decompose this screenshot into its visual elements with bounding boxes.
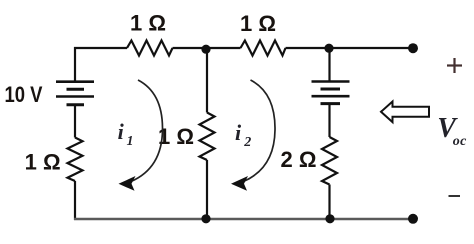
mesh current i1 arc bbox=[131, 80, 163, 182]
node D dot bottom-right branch bbox=[325, 214, 334, 223]
voltage source V1 10V battery plates bbox=[56, 82, 94, 105]
svg-text:2: 2 bbox=[243, 135, 251, 150]
svg-text:1 Ω: 1 Ω bbox=[240, 11, 276, 36]
voltage source V2 battery plates bbox=[312, 82, 350, 104]
wire top-left horizontal bbox=[74, 47, 127, 49]
plus sign bbox=[447, 58, 462, 73]
wire bottom horizontal bbox=[74, 218, 413, 221]
svg-text:1 Ω: 1 Ω bbox=[158, 124, 194, 149]
wire middle vertical upper bbox=[206, 48, 208, 113]
wire left vertical mid bbox=[74, 105, 76, 138]
Voc open arrow bbox=[381, 102, 429, 123]
resistor R-right 2ohm vertical bbox=[322, 137, 337, 185]
mesh current i1 arrowhead bbox=[119, 176, 136, 191]
svg-text:i: i bbox=[235, 120, 242, 145]
wire top-right horizontal bbox=[286, 47, 414, 49]
wire left vertical upper bbox=[74, 47, 76, 81]
svg-text:i: i bbox=[118, 119, 125, 144]
wire left vertical lower bbox=[74, 181, 76, 220]
terminal dot bottom-right bbox=[408, 214, 418, 224]
svg-text:1 Ω: 1 Ω bbox=[25, 150, 61, 175]
node B dot top-right branch bbox=[324, 44, 333, 53]
terminal dot top-right bbox=[408, 43, 418, 53]
wire middle vertical lower bbox=[206, 160, 208, 220]
svg-text:oc: oc bbox=[453, 134, 467, 149]
wire right-branch vertical lower bbox=[328, 185, 330, 221]
svg-text:1: 1 bbox=[127, 134, 134, 149]
svg-text:10 V: 10 V bbox=[5, 84, 43, 108]
svg-text:1 Ω: 1 Ω bbox=[130, 11, 166, 36]
resistor R-left 1ohm vertical bbox=[68, 138, 83, 182]
wire top-mid horizontal bbox=[173, 47, 241, 49]
wire right-branch vertical mid bbox=[328, 104, 330, 137]
svg-text:2 Ω: 2 Ω bbox=[281, 147, 317, 172]
resistor R-mid 1ohm vertical bbox=[200, 113, 215, 161]
resistor R-top-2 1ohm bbox=[241, 41, 286, 56]
node C dot bottom-middle bbox=[201, 214, 210, 223]
node A dot top-middle bbox=[201, 45, 210, 54]
mesh current i2 arrowhead bbox=[231, 176, 248, 191]
resistor R-top-1 1ohm bbox=[127, 41, 173, 56]
mesh current i2 arc bbox=[244, 80, 276, 182]
wire right-branch vertical upper bbox=[328, 48, 330, 81]
minus sign bbox=[449, 195, 461, 197]
